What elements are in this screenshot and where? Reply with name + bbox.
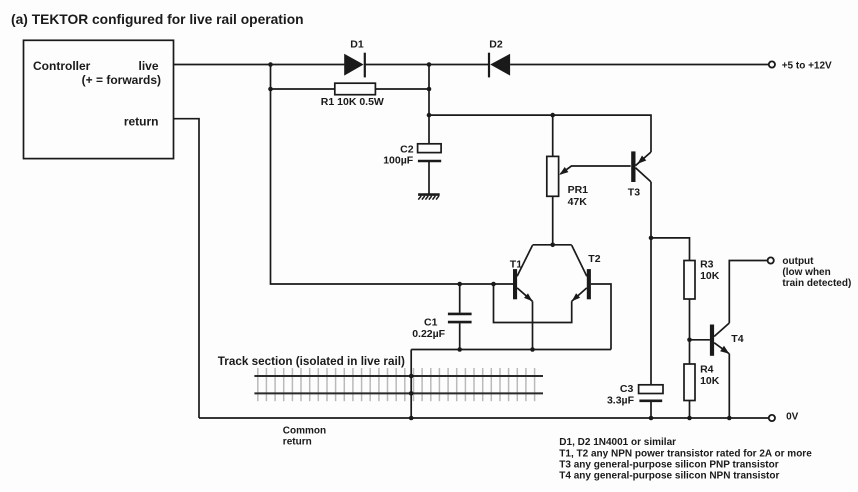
junction R4 / 0V (687, 416, 692, 421)
junction live/branch (268, 62, 273, 67)
junction T3 collector / R3 (649, 236, 654, 241)
junction T4 base (687, 338, 692, 343)
wire T2 emitter to cross-couple (494, 284, 572, 323)
junction rail 2 (409, 391, 414, 396)
wire controller return (174, 119, 200, 418)
svg-text:Common: Common (283, 425, 326, 436)
svg-text:0V: 0V (786, 412, 799, 423)
transistor T3 (631, 151, 651, 182)
ground (418, 195, 440, 200)
svg-text:output: output (782, 256, 814, 267)
svg-text:T4: T4 (731, 333, 743, 345)
transistor T2 (572, 245, 591, 301)
svg-text:(low when: (low when (782, 267, 830, 278)
svg-text:return: return (283, 437, 312, 448)
junction R1 right (427, 87, 432, 92)
junction rail 1 (409, 374, 414, 379)
svg-text:T1, T2 any NPN power transisto: T1, T2 any NPN power transistor rated fo… (559, 448, 812, 459)
svg-text:return: return (124, 114, 159, 128)
0V terminal (769, 415, 775, 421)
wire R1 right lead (375, 88, 429, 90)
junction T1 base / T2 emitter branch (491, 282, 496, 287)
junction T4 emitter / 0V (727, 416, 732, 421)
wire T1 emitter down (532, 301, 534, 349)
junction C1 bottom (457, 347, 462, 352)
svg-text:Controller: Controller (33, 59, 91, 73)
wire between D1 and D2 (365, 64, 489, 66)
wiper arrowhead (559, 167, 568, 175)
wire mid rail to T3 emitter (429, 115, 651, 152)
svg-text:47K: 47K (568, 196, 588, 208)
junction T1 emitter / net (530, 347, 535, 352)
wire track feed vertical (410, 350, 412, 419)
svg-text:T1: T1 (510, 258, 522, 270)
capacitor C3 (639, 385, 663, 418)
svg-text:Track section (isolated in liv: Track section (isolated in live rail) (218, 355, 405, 368)
svg-text:10K: 10K (700, 375, 720, 387)
svg-text:T3 any general-purpose silicon: T3 any general-purpose silicon PNP trans… (559, 459, 778, 470)
wire T2 base (591, 284, 611, 350)
wire R1 left lead (271, 88, 335, 90)
wire PR1 wiper to T3 base (561, 166, 631, 174)
svg-text:T3: T3 (628, 186, 640, 198)
wire live branch vertical and base feed (271, 65, 514, 285)
svg-text:D2: D2 (489, 38, 503, 50)
wire emitter net horizontal (411, 349, 611, 351)
transistor T4 (710, 323, 729, 356)
svg-text:100µF: 100µF (383, 154, 414, 166)
wire D2 to supply terminal (510, 64, 768, 66)
diode D1 (344, 53, 365, 78)
svg-text:live: live (138, 59, 158, 73)
track sleepers (258, 368, 535, 401)
transistor T1 (513, 245, 533, 301)
wire bottom 0V rail (199, 417, 769, 419)
wire PR1 top lead (552, 115, 554, 156)
track rail 1 (254, 375, 543, 377)
junction C3 / 0V (649, 416, 654, 421)
svg-text:D1, D2 1N4001 or similar: D1, D2 1N4001 or similar (559, 437, 676, 448)
wire live rail left segment (174, 64, 345, 66)
junction R1 left (268, 87, 273, 92)
junction collector bar (550, 243, 555, 248)
resistor R1 (335, 83, 376, 95)
svg-text:D1: D1 (350, 38, 364, 50)
wire T4 emitter to 0V (728, 354, 730, 418)
svg-text:C1: C1 (424, 317, 438, 329)
resistor R3 (684, 261, 695, 300)
capacitor C1 (448, 284, 472, 350)
junction C1 top (457, 282, 462, 287)
resistor R4 (689, 340, 691, 364)
svg-text:PR1: PR1 (568, 184, 589, 196)
svg-text:+5 to +12V: +5 to +12V (782, 61, 832, 72)
svg-text:C3: C3 (620, 383, 634, 395)
junction track feed / 0V (409, 416, 414, 421)
track rail 2 (254, 392, 543, 394)
controller box (24, 40, 174, 158)
svg-text:R3: R3 (700, 259, 714, 271)
wire vertical D1 cathode to C2 (428, 65, 430, 144)
wire T4 collector to output (729, 261, 767, 324)
svg-text:R1 10K 0.5W: R1 10K 0.5W (321, 96, 384, 108)
potentiometer PR1 (547, 156, 559, 196)
junction top rail x429 (427, 62, 432, 67)
junction mid rail x429 (427, 113, 432, 118)
svg-text:3.3µF: 3.3µF (607, 394, 635, 406)
svg-text:0.22µF: 0.22µF (412, 328, 445, 340)
svg-text:(+ = forwards): (+ = forwards) (82, 73, 161, 87)
svg-text:10K: 10K (700, 270, 720, 282)
svg-text:(a) TEKTOR configured for live: (a) TEKTOR configured for live rail oper… (11, 12, 304, 27)
diode D2 (489, 53, 510, 78)
junction PR1 top (550, 113, 555, 118)
svg-text:train detected): train detected) (782, 278, 851, 289)
wire collector bar T1-T2 (533, 244, 572, 246)
wire T3 collector down (650, 182, 652, 385)
wire R4 bottom lead (689, 401, 691, 419)
wire R3 top lead (651, 238, 690, 261)
supply terminal +5 to +12V (769, 61, 775, 67)
output terminal (768, 257, 774, 263)
svg-text:R4: R4 (700, 364, 714, 376)
wire PR1 bottom lead (552, 196, 554, 245)
capacitor C2 (418, 144, 442, 195)
svg-text:T2: T2 (588, 253, 600, 265)
wire R3 bottom to T4 base (690, 299, 710, 340)
svg-text:T4 any general-purpose silicon: T4 any general-purpose silicon NPN trans… (559, 471, 779, 482)
